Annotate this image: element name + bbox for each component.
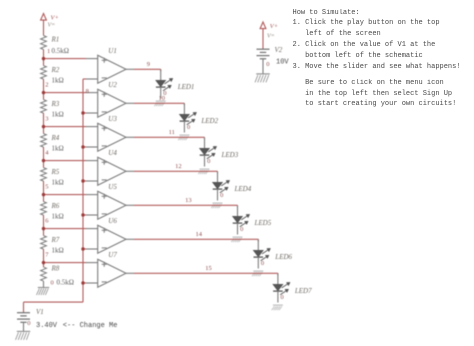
svg-text:13: 13 [185, 197, 192, 204]
svg-text:0: 0 [51, 279, 54, 286]
svg-text:V+: V+ [270, 23, 278, 30]
svg-text:14: 14 [196, 231, 203, 238]
svg-text:<-- Change Me: <-- Change Me [63, 322, 118, 330]
svg-text:0: 0 [261, 260, 264, 267]
svg-text:R1: R1 [51, 36, 60, 44]
svg-text:10: 10 [159, 95, 166, 102]
svg-text:V+: V+ [51, 15, 59, 22]
svg-text:0: 0 [27, 320, 30, 327]
svg-text:6: 6 [45, 218, 49, 225]
svg-text:2: 2 [45, 82, 48, 89]
svg-text:1kΩ: 1kΩ [52, 213, 64, 221]
svg-text:3.40V: 3.40V [36, 322, 58, 330]
svg-text:0: 0 [266, 61, 269, 68]
svg-text:12: 12 [175, 163, 182, 170]
svg-text:0.5kΩ: 0.5kΩ [52, 47, 69, 55]
svg-text:8: 8 [86, 88, 89, 95]
svg-text:R4: R4 [51, 134, 60, 142]
svg-text:LED2: LED2 [200, 117, 218, 125]
svg-text:1kΩ: 1kΩ [52, 247, 64, 255]
svg-text:R3: R3 [51, 100, 60, 108]
svg-text:R7: R7 [51, 236, 60, 244]
svg-text:R2: R2 [51, 66, 60, 74]
svg-text:LED3: LED3 [221, 151, 239, 159]
svg-text:LED4: LED4 [234, 185, 252, 193]
svg-text:11: 11 [169, 129, 175, 136]
svg-text:7: 7 [45, 252, 49, 259]
svg-text:V=: V= [48, 23, 56, 29]
svg-text:9: 9 [147, 61, 150, 68]
svg-text:5: 5 [45, 184, 48, 191]
svg-text:R5: R5 [51, 168, 60, 176]
svg-text:0: 0 [240, 226, 243, 233]
svg-text:U1: U1 [108, 47, 117, 55]
svg-text:V=: V= [267, 34, 275, 40]
svg-text:U6: U6 [108, 217, 117, 225]
svg-text:0: 0 [207, 158, 210, 165]
svg-text:1kΩ: 1kΩ [52, 145, 64, 153]
svg-text:U4: U4 [108, 149, 117, 157]
svg-text:U7: U7 [108, 251, 117, 259]
svg-text:4: 4 [45, 150, 49, 157]
svg-text:1kΩ: 1kΩ [52, 111, 64, 119]
svg-text:V2: V2 [275, 46, 283, 54]
svg-text:LED1: LED1 [177, 83, 195, 91]
svg-text:LED6: LED6 [274, 253, 292, 261]
svg-text:R8: R8 [51, 265, 60, 273]
svg-text:U5: U5 [108, 183, 117, 191]
svg-text:R6: R6 [51, 202, 60, 210]
svg-text:0.5kΩ: 0.5kΩ [57, 278, 74, 286]
svg-text:3: 3 [45, 116, 48, 123]
svg-text:0: 0 [220, 192, 223, 199]
svg-text:15: 15 [205, 265, 212, 272]
svg-text:LED7: LED7 [294, 287, 312, 295]
svg-text:0: 0 [281, 294, 284, 301]
svg-text:10V: 10V [276, 59, 289, 67]
svg-text:U3: U3 [108, 115, 117, 123]
svg-text:V1: V1 [36, 308, 44, 316]
svg-text:1kΩ: 1kΩ [52, 179, 64, 187]
svg-text:LED5: LED5 [254, 219, 272, 227]
svg-text:1: 1 [47, 48, 50, 55]
svg-text:1kΩ: 1kΩ [52, 77, 64, 85]
svg-text:0: 0 [187, 124, 190, 131]
svg-text:U2: U2 [108, 81, 117, 89]
